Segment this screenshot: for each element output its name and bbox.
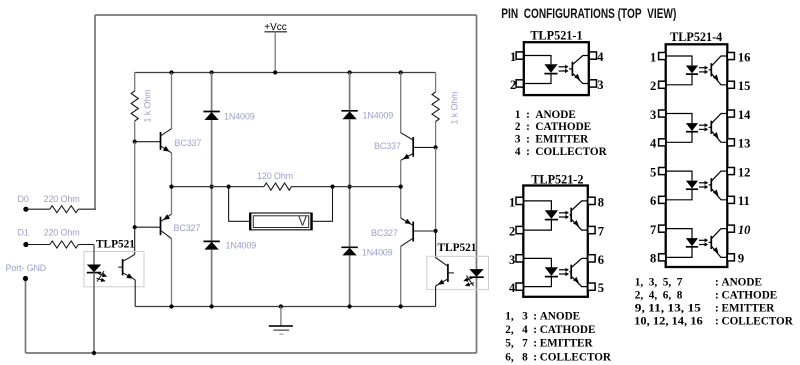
wire 1k-R top lead [435,73,437,93]
label D0 [18,194,29,204]
node mid rail / diode col left [210,185,214,189]
wire node to opto-R collector [435,231,437,258]
wire Port-GND riser [25,279,27,354]
pin number 1 (TLP521-1) [510,50,516,64]
wire mid rail right [292,186,401,188]
wire 1N4009 right column middle [349,119,351,247]
wire 1N4009 right column upper [349,73,351,112]
wire D0 top loop left border [94,15,96,209]
transistor Q1 BC337 left [135,73,172,187]
pin 3 square (TLP521-4) [659,110,666,117]
pin 15 square (TLP521-4) [727,81,734,88]
node bottom rail / BC327-L collector [169,304,173,308]
svg-text:1N4009: 1N4009 [226,241,257,251]
transistor of U2 (right opto) [436,258,454,307]
wire voltmeter right tap [312,187,333,222]
label 1N4009 top-right [363,111,394,121]
svg-text:11: 11 [738,194,750,208]
wire D0 lead right [78,208,96,210]
node mid rail / BC337-R emitter [399,185,403,189]
diode D 1N4009 top-left [203,112,219,121]
diode LED + transistor cell 1 (TLP521-4) [666,56,728,85]
transistor Q4 BC327 right [401,187,436,307]
svg-text:D0: D0 [18,194,29,204]
wire D1 lead left [26,244,50,246]
svg-text:2: 2 [510,78,516,92]
pin 9 square (TLP521-4) [727,254,734,261]
label BC327 right [371,228,398,238]
label BC337 right [374,141,401,151]
pin 7 square (TLP521-4) [659,225,666,232]
pin number 8 (TLP521-4) [650,252,656,266]
svg-text:8: 8 [650,252,656,266]
svg-text:BC327: BC327 [371,228,398,238]
pin number 2 (TLP521-1) [510,78,516,92]
wire bottom rail [135,306,435,308]
svg-text:4 : COLLECTOR: 4 : COLLECTOR [515,146,608,158]
wire D1 lead right [78,244,94,246]
wire +Vcc stub [274,32,276,73]
pin 10 square (TLP521-4) [727,225,734,232]
svg-text:1N4009: 1N4009 [224,112,255,122]
svg-text:1: 1 [510,50,516,64]
node D1 terminal [23,242,28,247]
op-amp — package TLP521-1 body [524,42,589,95]
pin 16 square (TLP521-4) [727,53,734,60]
svg-text:220 Ohm: 220 Ohm [44,194,80,204]
label 3 : EMITTER [515,134,589,146]
wire D0 top loop top border [95,14,477,16]
svg-text:2, 4, 6, 8: 2, 4, 6, 8 [635,289,683,301]
pin number 4 (TLP521-4) [650,137,657,151]
pin 4 square (TLP521-2) [516,283,523,290]
pin number 9 (TLP521-4) [738,252,744,266]
node BC327-L base node [133,225,137,229]
svg-text:9, 11, 13, 15: 9, 11, 13, 15 [635,303,701,315]
svg-text:16: 16 [738,50,751,64]
op-amp — package TLP521-4 body [666,44,728,267]
pin 8 square (TLP521-2) [588,197,595,204]
pin number 12 (TLP521-4) [738,165,751,179]
svg-text:1 : ANODE: 1 : ANODE [515,109,576,121]
pin 12 square (TLP521-4) [727,168,734,175]
wire mid rail left [172,186,265,188]
pin number 4 (TLP521-2) [509,281,516,295]
op-amp — optocoupler U1 TLP521 left box [84,252,144,287]
label 5, 7 : EMITTER [505,337,593,349]
svg-text:1N4009: 1N4009 [363,111,394,121]
svg-text:D1: D1 [18,227,29,237]
resistor 220 Ohm (D1) [50,241,79,248]
node mid rail / voltmeter left tap [227,185,231,189]
node top rail / BC337-L collector [169,70,173,74]
pin number 6 (TLP521-2) [598,253,604,267]
svg-text:BC327: BC327 [174,223,201,233]
svg-text:1, 3: 1, 3 [505,310,528,322]
op-amp — package TLP521-2 body [523,186,588,297]
svg-text:Port- GND: Port- GND [6,263,47,273]
wire 1k-R bottom lead [435,122,437,148]
resistor 120 Ohm [264,183,292,190]
wire 1N4009 left column lower [211,250,213,307]
pin number 15 (TLP521-4) [738,79,751,93]
pin 2 square (TLP521-4) [659,81,666,88]
wire 1k-L top lead [134,73,136,92]
diode D 1N4009 bottom-right [341,247,357,255]
label 1 : ANODE [515,109,576,121]
label 1 k Ohm (right) [450,92,460,125]
pin number 2 (TLP521-4) [650,79,656,93]
pin number 7 (TLP521-2) [598,225,604,239]
wire U2 light arrows [463,276,474,287]
node mid rail / voltmeter right tap [330,185,334,189]
pin 3 square (TLP521-1) [589,80,596,87]
wire node to opto-L collector [134,227,136,254]
node mid rail / diode col right [348,185,352,189]
diode LED of U2 (right opto) [469,269,483,277]
label 1 k Ohm (left) [143,90,153,123]
label 1N4009 bottom-left [226,241,257,251]
pin number 3 (TLP521-1) [597,78,603,92]
pin 1 square (TLP521-1) [516,52,523,59]
label 2,4,6,8 : CATHODE [635,289,777,301]
label 4 : COLLECTOR [515,146,608,158]
pin number 14 (TLP521-4) [738,108,751,122]
wire right border upper (to TLP521 LED anode) [476,15,478,269]
node top rail / 1N4009-1 cathode [210,70,214,74]
node bottom rail / diode col right [348,304,352,308]
node top rail / +Vcc [273,70,277,74]
svg-text:: ANODE: : ANODE [715,277,762,289]
diode LED + transistor cell 4 (TLP521-4) [666,229,728,258]
node bottom rail / BC327-R collector [399,304,403,308]
svg-text:TLP521-1: TLP521-1 [530,28,582,42]
svg-text:6, 8: 6, 8 [505,351,528,363]
svg-text:15: 15 [738,79,751,93]
pin 2 square (TLP521-1) [516,80,523,87]
pin 8 square (TLP521-4) [659,254,666,261]
svg-text:PIN CONFIGURATIONS (TOP VIEW: PIN CONFIGURATIONS (TOP VIEW) [501,6,676,21]
label 1,3,5,7 : ANODE [635,277,762,289]
label TLP521-2 title [531,172,583,186]
svg-text:BC337: BC337 [175,138,202,148]
pin number 8 (TLP521-2) [598,195,604,209]
svg-text:4: 4 [650,137,657,151]
pin 2 square (TLP521-2) [516,226,523,233]
pin 4 square (TLP521-1) [589,52,596,59]
svg-text:TLP521: TLP521 [438,242,477,254]
node top rail / BC337-R collector [399,70,403,74]
svg-text:BC337: BC337 [374,141,401,151]
label 220 Ohm (D0) [44,194,80,204]
diode LED + transistor cell 3 (TLP521-4) [666,171,728,200]
pin number 16 (TLP521-4) [738,50,751,64]
svg-text:1N4009: 1N4009 [362,248,393,258]
pin 6 square (TLP521-2) [588,255,595,262]
wire top rail [135,72,436,74]
svg-text:5: 5 [598,281,604,295]
label TLP521-4 title [670,30,722,44]
svg-text:: EMITTER: : EMITTER [715,303,775,315]
wire node to BC327-R base column [435,147,437,231]
label 10,12,14,16 : COLLECTOR [634,316,794,328]
pin number 7 (TLP521-4) [650,223,656,237]
svg-text:5: 5 [650,165,656,179]
pin number 10 (TLP521-4) [738,223,751,237]
svg-text:120 Ohm: 120 Ohm [257,171,293,181]
resistor R 1 k Ohm left [131,91,138,121]
pin 14 square (TLP521-4) [727,110,734,117]
svg-text:3 : EMITTER: 3 : EMITTER [515,134,589,146]
label BC337 left [175,138,202,148]
pin 13 square (TLP521-4) [727,139,734,146]
svg-text:12: 12 [738,165,751,179]
svg-text:: EMITTER: : EMITTER [533,337,593,349]
wire U1 light arrows [97,271,108,282]
node BC337-R base node [434,145,438,149]
label BC327 left [174,223,201,233]
wire +Vcc underline [265,31,288,33]
wire 1N4009 right column lower [349,255,351,306]
resistor 220 Ohm (D0) [50,206,79,213]
ground [269,307,293,335]
pin 5 square (TLP521-2) [588,283,595,290]
label 9,11,13,15 : EMITTER [635,303,775,315]
node D0 terminal [23,207,28,212]
node BC327-R base node [434,229,438,233]
svg-text:2, 4: 2, 4 [505,324,528,336]
node top rail / 1N4009-2 cathode [348,70,352,74]
diode LED + transistor cell 2 (TLP521-4) [666,114,728,143]
pin number 1 (TLP521-2) [509,195,515,209]
pin number 6 (TLP521-4) [650,194,656,208]
resistor R 1 k Ohm right [432,92,439,122]
transistor of U1 (left opto) [118,255,135,307]
svg-text:: CATHODE: : CATHODE [715,289,777,301]
label TLP521-1 title [530,28,582,42]
wire 1N4009 left column middle [211,120,213,241]
svg-text:9: 9 [738,252,744,266]
svg-text:2: 2 [509,225,515,239]
diode LED + transistor cell B (TLP521-2) [523,258,588,286]
label 220 Ohm (D1) [44,227,80,237]
label Port- GND [6,263,47,273]
svg-text:220 Ohm: 220 Ohm [44,227,80,237]
pin number 1 (TLP521-4) [650,50,656,64]
diode LED + transistor cell A (TLP521-2) [523,201,588,230]
svg-text:6: 6 [598,253,604,267]
svg-text:: CATHODE: : CATHODE [533,324,595,336]
pin number 13 (TLP521-4) [738,137,751,151]
pin number 5 (TLP521-4) [650,165,656,179]
svg-text:3: 3 [597,78,603,92]
svg-text:4: 4 [509,281,516,295]
pin 11 square (TLP521-4) [727,196,734,203]
pin 1 square (TLP521-2) [516,197,523,204]
transistor Q2 BC327 left [135,187,172,307]
svg-text:5, 7: 5, 7 [505,337,528,349]
label TLP521 right [438,242,477,254]
node bottom rail / ground [279,304,283,308]
svg-text:7: 7 [650,223,656,237]
svg-text:1 k Ohm: 1 k Ohm [450,92,460,125]
svg-text:: COLLECTOR: : COLLECTOR [533,351,612,363]
pin number 2 (TLP521-2) [509,225,515,239]
svg-text:13: 13 [738,137,751,151]
node BC337-L base node [133,140,137,144]
label 120 Ohm [257,171,293,181]
svg-text:2: 2 [650,79,656,93]
svg-text:V: V [298,214,307,228]
svg-text:3: 3 [650,108,656,122]
pin number 4 (TLP521-1) [597,50,604,64]
svg-text:1: 1 [650,50,656,64]
svg-text:: COLLECTOR: : COLLECTOR [715,316,794,328]
diode D 1N4009 bottom-left [203,241,219,249]
pin 5 square (TLP521-4) [659,168,666,175]
diode LED of U1 (left opto) [87,245,101,354]
pin 6 square (TLP521-4) [659,196,666,203]
label 6, 8 : COLLECTOR [505,351,612,363]
label +Vcc [264,22,287,33]
svg-text:TLP521-2: TLP521-2 [531,172,583,186]
wire right border lower (TLP521 LED cathode to bottom) [476,277,478,353]
op-amp — optocoupler U2 TLP521 right box [427,256,489,289]
pin 3 square (TLP521-2) [516,255,523,262]
label 2 : CATHODE [515,121,591,133]
svg-text:TLP521: TLP521 [96,238,135,250]
pin number 3 (TLP521-2) [509,253,515,267]
svg-text:10, 12, 14, 16: 10, 12, 14, 16 [634,316,703,328]
node bottom rail / diode col left [210,304,214,308]
label 1N4009 top-left [224,112,255,122]
svg-text:10: 10 [738,223,751,237]
node Port-GND terminal [23,276,28,281]
pin 4 square (TLP521-4) [659,139,666,146]
wire 1N4009 left column upper [211,73,213,112]
label D1 [18,227,29,237]
svg-text:1 k Ohm: 1 k Ohm [143,90,153,123]
svg-text:6: 6 [650,194,656,208]
label TLP521 left [96,238,135,250]
wire 1k-L bottom lead [134,121,136,142]
wire node to BC327-L base column [134,142,136,228]
pin 1 square (TLP521-4) [659,53,666,60]
svg-text:2 : CATHODE: 2 : CATHODE [515,121,591,133]
node mid rail / BC337-L emitter [169,185,173,189]
diode LED + transistor cell (TLP521-1) [524,56,589,84]
voltmeter V [250,213,312,230]
wire bottom ground return line [26,352,477,354]
pin number 3 (TLP521-4) [650,108,656,122]
svg-text:14: 14 [738,108,751,122]
svg-text:4: 4 [597,50,604,64]
wire voltmeter left tap [229,187,250,222]
pin number 5 (TLP521-2) [598,281,604,295]
svg-text:7: 7 [598,225,604,239]
label PIN CONFIGURATIONS (TOP VIEW) [501,6,676,21]
svg-text:1, 3, 5, 7: 1, 3, 5, 7 [635,277,683,289]
node LED-L cathode / bottom line [92,351,96,355]
transistor Q3 BC337 right [401,73,436,187]
svg-text:: ANODE: : ANODE [533,310,580,322]
pin number 11 (TLP521-4) [738,194,750,208]
svg-text:TLP521-4: TLP521-4 [670,30,722,44]
diode D 1N4009 top-right [341,111,357,119]
label 1, 3 : ANODE [505,310,580,322]
svg-text:8: 8 [598,195,604,209]
wire D0 lead left [26,208,50,210]
label 2, 4 : CATHODE [505,324,595,336]
svg-text:1: 1 [509,195,515,209]
pin 7 square (TLP521-2) [588,226,595,233]
label 1N4009 bottom-right [362,248,393,258]
svg-text:3: 3 [509,253,515,267]
